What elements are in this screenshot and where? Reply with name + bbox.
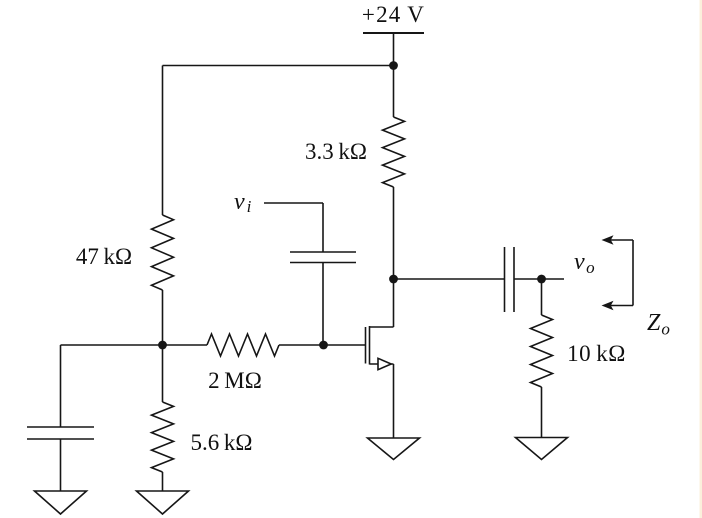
svg-text:5.6 kΩ: 5.6 kΩ [191, 430, 253, 455]
svg-text:47 kΩ: 47 kΩ [76, 244, 132, 269]
svg-text:10 kΩ: 10 kΩ [567, 341, 626, 366]
svg-text:2 MΩ: 2 MΩ [208, 368, 262, 393]
svg-text:3.3 kΩ: 3.3 kΩ [305, 139, 367, 164]
svg-text:+24 V: +24 V [362, 2, 425, 27]
